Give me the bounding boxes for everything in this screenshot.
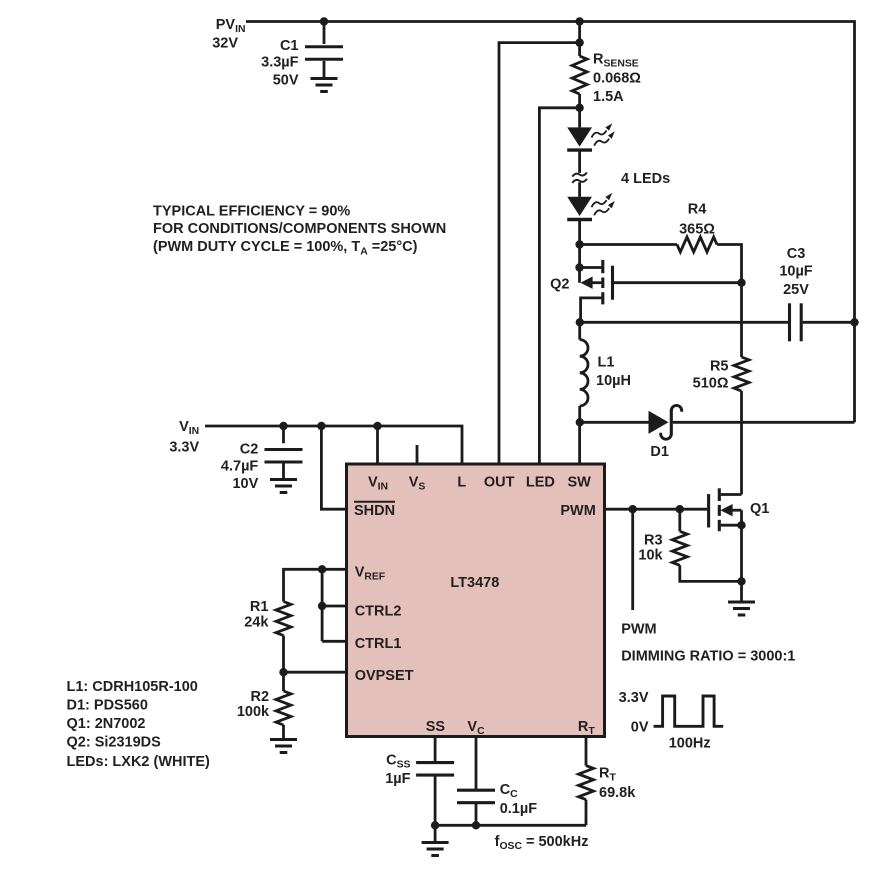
svg-text:SS: SS <box>426 719 446 735</box>
svg-text:CTRL2: CTRL2 <box>355 604 402 620</box>
svg-text:FOR CONDITIONS/COMPONENTS SHOW: FOR CONDITIONS/COMPONENTS SHOWN <box>153 221 446 237</box>
svg-text:4 LEDs: 4 LEDs <box>621 171 670 187</box>
svg-text:24k: 24k <box>244 615 269 631</box>
svg-text:OVPSET: OVPSET <box>355 668 414 684</box>
svg-text:50V: 50V <box>273 73 299 89</box>
svg-text:10µF: 10µF <box>779 264 812 280</box>
svg-text:OUT: OUT <box>484 475 515 491</box>
svg-text:LT3478: LT3478 <box>450 575 499 591</box>
svg-text:25V: 25V <box>783 282 809 298</box>
svg-text:69.8k: 69.8k <box>599 785 636 801</box>
svg-text:CTRL1: CTRL1 <box>355 636 402 652</box>
svg-text:R4: R4 <box>688 202 707 218</box>
svg-text:D1: PDS560: D1: PDS560 <box>67 697 148 713</box>
svg-text:4.7µF: 4.7µF <box>221 459 259 475</box>
svg-text:365Ω: 365Ω <box>679 222 715 238</box>
svg-text:0V: 0V <box>631 719 649 735</box>
svg-text:1µF: 1µF <box>385 771 410 787</box>
svg-text:TYPICAL EFFICIENCY = 90%: TYPICAL EFFICIENCY = 90% <box>153 204 350 220</box>
svg-text:L1: L1 <box>598 355 615 371</box>
svg-text:R2: R2 <box>251 689 270 705</box>
svg-text:10µH: 10µH <box>596 373 631 389</box>
svg-text:100k: 100k <box>237 704 270 720</box>
svg-text:Q2: Q2 <box>550 277 569 293</box>
svg-text:Q1: Q1 <box>750 501 769 517</box>
svg-text:510Ω: 510Ω <box>693 376 729 392</box>
svg-text:3.3V: 3.3V <box>169 440 199 456</box>
svg-text:LED: LED <box>526 475 555 491</box>
svg-text:R3: R3 <box>644 533 663 549</box>
svg-text:DIMMING RATIO = 3000:1: DIMMING RATIO = 3000:1 <box>621 649 795 665</box>
svg-text:D1: D1 <box>650 444 669 460</box>
svg-text:(PWM DUTY CYCLE = 100%, TA =25: (PWM DUTY CYCLE = 100%, TA =25°C) <box>153 239 418 257</box>
svg-text:LEDs: LXK2 (WHITE): LEDs: LXK2 (WHITE) <box>67 754 211 770</box>
svg-text:SW: SW <box>568 475 592 491</box>
svg-text:10V: 10V <box>232 476 258 492</box>
svg-text:C3: C3 <box>787 246 806 262</box>
svg-text:L1: CDRH105R-100: L1: CDRH105R-100 <box>67 679 198 695</box>
svg-text:3.3µF: 3.3µF <box>261 54 299 70</box>
svg-text:Q1: 2N7002: Q1: 2N7002 <box>67 716 146 732</box>
svg-text:PWM: PWM <box>621 621 656 637</box>
svg-text:R5: R5 <box>710 359 729 375</box>
svg-text:L: L <box>457 475 466 491</box>
svg-text:PWM: PWM <box>560 503 595 519</box>
svg-text:SHDN: SHDN <box>354 503 395 519</box>
svg-text:10k: 10k <box>638 548 663 564</box>
svg-text:Q2: Si2319DS: Q2: Si2319DS <box>67 734 162 750</box>
svg-text:1.5A: 1.5A <box>593 89 624 105</box>
svg-text:C2: C2 <box>240 441 259 457</box>
svg-text:32V: 32V <box>212 36 238 52</box>
svg-text:0.068Ω: 0.068Ω <box>593 71 641 87</box>
svg-text:100Hz: 100Hz <box>669 736 711 752</box>
svg-text:R1: R1 <box>250 599 269 615</box>
svg-text:3.3V: 3.3V <box>619 690 649 706</box>
svg-text:C1: C1 <box>280 38 299 54</box>
svg-text:0.1µF: 0.1µF <box>500 801 538 817</box>
